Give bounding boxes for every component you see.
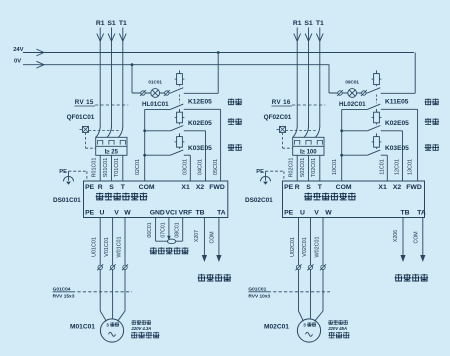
- svg-text:V01C01: V01C01: [104, 237, 110, 256]
- svg-text:S01C01: S01C01: [103, 158, 109, 177]
- VFD U2 艾默生变频器 box DS02C01: [283, 181, 425, 218]
- svg-text:K12E05: K12E05: [188, 98, 212, 105]
- svg-text:QF01C01: QF01C01: [67, 114, 95, 121]
- svg-text:24V: 24V: [13, 47, 23, 53]
- svg-text:PE: PE: [256, 169, 264, 175]
- svg-text:V02C01: V02C01: [302, 237, 308, 256]
- svg-text:U: U: [300, 210, 305, 217]
- label 故障输出 (fault output): [198, 274, 231, 282]
- wire T01C01 breaker to VFD terminal T: [114, 155, 123, 181]
- svg-text:220V 45A: 220V 45A: [327, 326, 347, 331]
- label 正转 forward: [228, 98, 242, 105]
- svg-text:HL02C01: HL02C01: [339, 101, 366, 108]
- terminal on lamp wire (right): [164, 90, 170, 96]
- svg-text:K02E05: K02E05: [188, 120, 212, 127]
- svg-text:PE: PE: [85, 184, 95, 191]
- label 变频电机 (VF motor): [132, 320, 152, 324]
- svg-text:R01C01: R01C01: [92, 158, 98, 178]
- label contact K03E05: [385, 145, 409, 152]
- svg-text:W02C01: W02C01: [314, 237, 320, 258]
- svg-text:TA: TA: [217, 210, 226, 217]
- svg-text:S: S: [109, 184, 114, 191]
- wire R02C01 breaker to VFD terminal R: [289, 155, 298, 181]
- label 故障输出 (fault output): [395, 274, 428, 282]
- svg-text:S1: S1: [107, 20, 116, 27]
- wire T02C01 breaker to VFD terminal T: [311, 155, 320, 181]
- svg-text:03C01: 03C01: [183, 159, 189, 175]
- svg-text:PE: PE: [59, 169, 67, 175]
- label 降速 speed-down: [425, 144, 439, 151]
- contact K12E05 (lamp circuit pole): [170, 85, 183, 104]
- wire 0V rail corner down (right drive): [329, 65, 367, 93]
- wire rung K-FWD to terminal FWD (wire 13C01): [342, 109, 418, 181]
- label rating 220V 45A: [327, 326, 347, 331]
- svg-text:U02C01: U02C01: [290, 237, 296, 257]
- terminal on lamp wire (right): [361, 90, 367, 96]
- wire phase S1 drop to breaker QF02C01: [305, 28, 312, 125]
- label 降速 speed-down: [228, 144, 242, 151]
- label 艾默生变频器 (VFD title): [304, 193, 356, 201]
- label M01C01: [70, 323, 95, 330]
- svg-text:I≥ 25: I≥ 25: [105, 150, 119, 156]
- breaker QF02C01 trip unit box with thermal elements and setting I>100: [293, 137, 324, 155]
- svg-text:T02C01: T02C01: [311, 158, 317, 177]
- label cable G01C01 RVV 10x3: [248, 287, 330, 300]
- node 0V tap for lamp HL01C01: [131, 63, 171, 93]
- contact K12E05 operator: [175, 70, 185, 84]
- contact K02E05: [367, 123, 380, 131]
- svg-text:S: S: [306, 184, 311, 191]
- wire rung K02 to terminal X2 (wire 12C01): [340, 129, 402, 181]
- svg-text:PE: PE: [284, 184, 294, 191]
- svg-text:S1: S1: [304, 20, 313, 27]
- wire W02C01 motor lead: [314, 218, 323, 322]
- svg-text:K03E05: K03E05: [188, 145, 212, 152]
- wire phase R1 drop to breaker QF02C01: [294, 28, 301, 125]
- wire 06C01 GND to sensor: [147, 218, 155, 242]
- svg-text:X2: X2: [393, 184, 402, 191]
- wire phase T1 drop to breaker QF01C01: [119, 28, 126, 125]
- label contact K02E05: [188, 120, 212, 127]
- wire rung K03 to terminal X1 (wire 03C01): [143, 154, 190, 181]
- svg-text:COM: COM: [210, 231, 216, 243]
- svg-text:PE: PE: [284, 210, 294, 217]
- svg-text:T1: T1: [316, 20, 324, 27]
- wire U02C01 motor lead: [290, 218, 304, 322]
- svg-text:FWD: FWD: [209, 184, 225, 191]
- contact K03E05 operator: [372, 133, 382, 147]
- svg-text:R1: R1: [96, 20, 105, 27]
- breaker QF02C01 pole blades: [293, 125, 320, 138]
- wire 0V supply rail with source arrow: [14, 59, 329, 68]
- label cable G01C04 RVV 15x3: [53, 287, 132, 300]
- svg-text:RV 15: RV 15: [75, 99, 94, 106]
- motor M01C01 (3-phase): [100, 319, 123, 342]
- svg-text:R02C01: R02C01: [289, 158, 295, 178]
- svg-text:I≥ 100: I≥ 100: [300, 150, 317, 156]
- pin labels VFD U1 top: PE R S T COM X1 X2 FWD: [85, 184, 225, 191]
- wire U01C01 motor lead: [92, 218, 107, 322]
- wire X207 fault output TB: [194, 218, 207, 263]
- svg-text:13C01: 13C01: [407, 159, 413, 175]
- svg-text:U: U: [100, 210, 105, 217]
- lamp HL01C01: [142, 89, 169, 109]
- VFD U1 艾默生变频器 box DS01C01: [84, 181, 228, 218]
- svg-text:HL01C01: HL01C01: [142, 101, 169, 108]
- svg-text:X206: X206: [393, 230, 399, 242]
- motor M02C01 (3-phase): [297, 319, 320, 342]
- wire PE bond to VFD (dashed): [266, 171, 284, 181]
- label 主电机 (main motor): [328, 332, 349, 338]
- svg-text:R: R: [295, 184, 300, 191]
- breaker QF01C01 linkage (dashed): [86, 131, 119, 149]
- pin labels VFD U2 top: PE R S T COM X1 X2 FWD: [284, 184, 422, 191]
- wire rung K-FWD to terminal FWD (wire 05C01): [145, 109, 221, 181]
- svg-text:R: R: [98, 184, 103, 191]
- contact K03E05: [367, 147, 380, 155]
- svg-text:0V: 0V: [14, 59, 21, 65]
- label cable RV 15 with marker line: [74, 99, 128, 106]
- svg-text:RV 16: RV 16: [272, 99, 291, 106]
- svg-text:DS02C01: DS02C01: [245, 197, 273, 204]
- contact K03E05: [170, 147, 183, 155]
- wire X206 fault output TB: [393, 218, 406, 263]
- svg-text:K11E05: K11E05: [385, 98, 409, 105]
- pin labels VFD U2 bottom: PE U V W TB TA: [284, 210, 426, 217]
- label contact K12E05: [188, 98, 212, 105]
- contact K11E05 operator: [372, 70, 382, 84]
- svg-text:06C01: 06C01: [147, 222, 153, 237]
- wire 24V supply rail with source arrow: [13, 47, 414, 56]
- contact K02E05 operator: [175, 109, 185, 123]
- label 正转 forward: [425, 98, 439, 105]
- wire rung K03 to terminal X1 (wire 11C01): [340, 154, 387, 181]
- svg-text:02C01: 02C01: [135, 159, 141, 175]
- wire COM fault output TA: [413, 218, 425, 263]
- terminal on lamp wire (left): [140, 90, 146, 96]
- label 进布电机 (feed motor): [131, 332, 160, 338]
- label M02C01: [264, 323, 289, 330]
- svg-text:01C01: 01C01: [148, 80, 162, 85]
- svg-text:S02C01: S02C01: [300, 158, 306, 177]
- svg-text:V: V: [314, 210, 319, 217]
- svg-text:K03E05: K03E05: [385, 145, 409, 152]
- wire phase T1 drop to breaker QF02C01: [316, 28, 323, 125]
- label contact K02E05: [385, 120, 409, 127]
- label 艾默生变频器 (VFD title): [96, 193, 148, 201]
- label wire 01C01: [148, 80, 162, 85]
- breaker QF01C01 manual operator handle: [80, 126, 89, 132]
- lamp HL02C01: [339, 89, 366, 109]
- svg-text:W01C01: W01C01: [116, 237, 122, 258]
- wire R01C01 breaker to VFD terminal R: [92, 155, 101, 181]
- wire 07C01 VCI wiper: [161, 218, 171, 241]
- svg-text:T01C01: T01C01: [114, 158, 120, 177]
- wire COM fault output TA: [210, 218, 222, 263]
- svg-text:3: 3: [303, 322, 306, 327]
- svg-text:07C01: 07C01: [161, 222, 167, 237]
- svg-text:12C01: 12C01: [395, 159, 401, 175]
- contact K11E05 (FWD command pole): [367, 104, 380, 109]
- wire common bus to terminal COM (wire 02C01): [135, 109, 145, 181]
- label incoming phases R1 S1 T1 (left drive): [96, 20, 127, 27]
- wire lamp branch to 24V drop: [184, 51, 220, 93]
- svg-text:11C01: 11C01: [380, 159, 386, 174]
- terminals on motor leads M1: [97, 264, 128, 270]
- svg-text:3: 3: [106, 322, 109, 327]
- contact K12E05 (FWD command pole): [170, 104, 183, 109]
- svg-text:M01C01: M01C01: [70, 323, 95, 330]
- svg-text:COM: COM: [336, 184, 352, 191]
- wire PE bond to VFD (dashed): [69, 171, 87, 181]
- svg-text:TB: TB: [195, 210, 204, 217]
- terminal on lamp wire (left): [337, 90, 343, 96]
- wire 08C01 VRF to sensor: [174, 218, 182, 242]
- svg-text:M02C01: M02C01: [264, 323, 289, 330]
- wire rung K02 to terminal X2 (wire 04C01): [143, 129, 205, 181]
- wire phase R1 drop to breaker QF01C01: [97, 28, 104, 125]
- svg-text:QF02C01: QF02C01: [264, 114, 292, 121]
- breaker QF02C01 manual operator handle: [277, 126, 286, 132]
- svg-text:R1: R1: [293, 20, 302, 27]
- breaker QF02C01 designator label: [264, 114, 292, 121]
- svg-text:COM: COM: [139, 184, 155, 191]
- svg-text:V: V: [114, 210, 119, 217]
- label 升速 speed-up: [425, 118, 439, 125]
- svg-text:X207: X207: [194, 230, 200, 242]
- contact K02E05: [170, 123, 183, 131]
- svg-text:X1: X1: [181, 184, 190, 191]
- breaker QF02C01 linkage (dashed): [283, 131, 316, 149]
- label 升速 speed-up: [228, 118, 242, 125]
- wire S02C01 breaker to VFD terminal S: [300, 155, 309, 181]
- svg-text:COM: COM: [413, 231, 419, 243]
- svg-text:GND: GND: [150, 210, 165, 217]
- label DS01C01: [53, 197, 81, 204]
- svg-text:X1: X1: [378, 184, 387, 191]
- svg-text:VCI: VCI: [166, 210, 177, 217]
- svg-text:220V 4.3A: 220V 4.3A: [130, 326, 151, 331]
- terminals on motor leads M2: [296, 264, 327, 270]
- svg-text:10C01: 10C01: [332, 159, 338, 175]
- ground PE symbol (left drive): [59, 169, 73, 185]
- wire common bus to terminal COM (wire 10C01): [332, 109, 342, 181]
- label rating 220V 4.3A: [130, 326, 151, 331]
- svg-text:TA: TA: [417, 210, 426, 217]
- label contact K11E05: [385, 98, 409, 105]
- svg-text:09C01: 09C01: [345, 80, 359, 85]
- svg-text:X2: X2: [196, 184, 205, 191]
- svg-text:W: W: [325, 210, 332, 217]
- label 同步电机 (sync motor): [328, 320, 348, 324]
- breaker QF01C01 trip unit box with thermal elements and setting I>25: [96, 137, 127, 155]
- svg-text:FWD: FWD: [406, 184, 422, 191]
- contact K03E05 operator: [175, 133, 185, 147]
- label DS02C01: [245, 197, 273, 204]
- wire phase S1 drop to breaker QF01C01: [108, 28, 115, 125]
- svg-text:RVV 15x3: RVV 15x3: [53, 294, 75, 300]
- potentiometer 同步传感器 (sync sensor): [150, 239, 189, 254]
- pin labels VFD U1 bottom: PE U V W GND VCI VRF TB TA: [85, 210, 226, 217]
- label wire 09C01: [345, 80, 359, 85]
- svg-text:W: W: [124, 210, 131, 217]
- svg-text:RVV 10x3: RVV 10x3: [248, 294, 270, 300]
- svg-text:05C01: 05C01: [213, 159, 219, 175]
- wire V02C01 motor lead: [302, 218, 311, 320]
- svg-text:K02E05: K02E05: [385, 120, 409, 127]
- ground PE symbol (right drive): [256, 169, 270, 185]
- svg-text:TB: TB: [400, 210, 409, 217]
- breaker QF01C01 pole blades: [96, 125, 123, 138]
- label incoming phases R1 S1 T1 (right drive): [293, 20, 324, 27]
- breaker QF01C01 designator label: [67, 114, 95, 121]
- contact K02E05 operator: [372, 109, 382, 123]
- label cable RV 16 with marker line: [271, 99, 325, 106]
- wire W01C01 motor lead: [116, 218, 125, 322]
- svg-text:08C01: 08C01: [174, 222, 180, 237]
- wire S01C01 breaker to VFD terminal S: [103, 155, 112, 181]
- svg-text:U01C01: U01C01: [92, 237, 98, 257]
- contact K11E05 (lamp circuit pole): [367, 85, 380, 104]
- svg-text:T1: T1: [119, 20, 127, 27]
- svg-text:VRF: VRF: [179, 210, 193, 217]
- wire lamp branch to 24V drop: [381, 53, 415, 94]
- svg-text:DS01C01: DS01C01: [53, 197, 81, 204]
- svg-text:PE: PE: [85, 210, 95, 217]
- svg-text:04C01: 04C01: [198, 159, 204, 175]
- wire V01C01 motor lead: [104, 218, 113, 320]
- label contact K03E05: [188, 145, 212, 152]
